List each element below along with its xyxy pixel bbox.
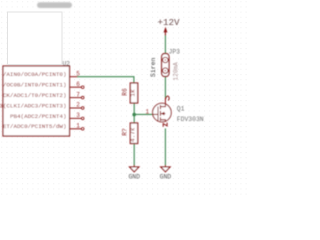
wire Q1 source to GND [164,128,166,165]
svg-text:/AIN0/OC0A/PCINT0): /AIN0/OC0A/PCINT0) [3,71,67,78]
popup overlay box [8,12,63,65]
drain pigtail [166,96,170,100]
resistor R7 [130,123,137,144]
svg-text:Q1: Q1 [177,106,185,113]
IC U2 [3,66,70,136]
svg-text:CK/ADC1/T0/PCINT2): CK/ADC1/T0/PCINT2) [3,92,67,99]
resistor R6 [130,83,137,103]
ground left [133,165,135,167]
svg-text:GND: GND [128,174,140,181]
svg-text:2: 2 [76,102,80,109]
gate lead [153,113,158,115]
wire JP3 to Q1 drain [164,77,166,98]
svg-text:3: 3 [76,112,80,119]
pin 2 stub [70,107,82,109]
ground right [164,165,166,167]
wire junction to gate [134,113,153,115]
svg-text:+12V: +12V [157,17,180,28]
pin 7 stub [70,97,82,99]
wire +12V to JP3 [164,35,166,54]
wire pin5 to R6 [77,77,134,83]
svg-text:GND: GND [160,174,172,181]
scrollbar thumb [37,2,72,8]
svg-text:Siren: Siren [150,57,157,77]
source stub [160,120,165,122]
wire R6 to R7 [133,103,135,123]
svg-text:4.7k: 4.7k [130,127,137,142]
bulk stub + arrow [161,113,166,115]
gate bar [157,107,159,121]
pin 3 stub [70,117,82,119]
svg-text:/OC0B/INT0/PCINT1): /OC0B/INT0/PCINT1) [3,82,67,89]
pin 5 stub [70,76,78,78]
svg-text:5: 5 [76,70,80,77]
wire R7 to GND [133,144,135,166]
svg-text:R6: R6 [122,88,129,96]
svg-text:1: 1 [76,123,80,130]
connector JP3 [162,54,169,77]
svg-text:1: 1 [145,109,149,116]
svg-text:JP3: JP3 [169,48,181,55]
transistor Q1 [153,96,172,127]
source zigzag [163,123,167,127]
channel segments [159,105,161,109]
drain stub [160,98,165,107]
pin 6 stub [70,86,82,88]
node junction [132,113,136,117]
svg-text:7: 7 [76,91,80,98]
svg-text:6: 6 [76,81,80,88]
svg-text:FDV303N: FDV303N [177,116,204,123]
svg-text:1k: 1k [130,89,137,97]
svg-text:R?: R? [122,128,129,136]
svg-text:120mA: 120mA [172,62,179,81]
pin 1 stub [70,128,82,130]
svg-text:3(CLKI/ADC3/PCINT3): 3(CLKI/ADC3/PCINT3) [0,102,67,109]
svg-text:PB4(ADC2/PCINT4): PB4(ADC2/PCINT4) [10,113,67,120]
svg-text:U2: U2 [62,60,70,67]
svg-text:ET/ADC0/PCINT5/dW): ET/ADC0/PCINT5/dW) [3,123,67,130]
